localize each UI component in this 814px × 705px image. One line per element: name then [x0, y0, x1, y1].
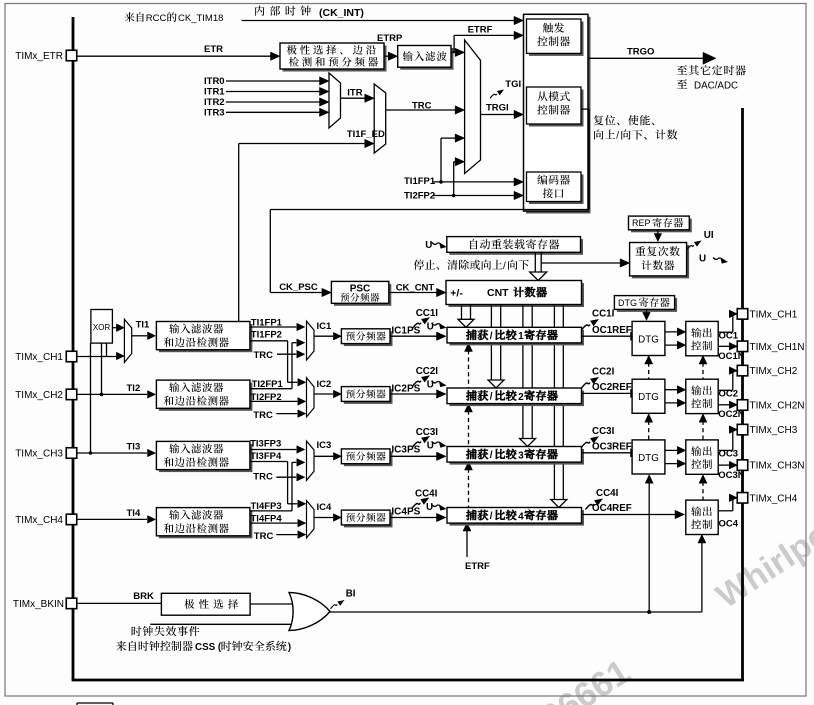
svg-text:TI4: TI4	[127, 508, 141, 519]
svg-text:CC2I: CC2I	[416, 366, 439, 377]
svg-text:CK_TIM18: CK_TIM18	[178, 13, 223, 24]
svg-text:CC4I: CC4I	[415, 489, 438, 500]
svg-text:RCC: RCC	[146, 13, 167, 24]
svg-text:OC2: OC2	[719, 389, 739, 400]
svg-text:DAC/ADC: DAC/ADC	[694, 80, 738, 91]
svg-text:TRC: TRC	[253, 410, 273, 421]
svg-text:TIMx_CH3: TIMx_CH3	[750, 425, 798, 436]
svg-text:TIMx_CH4: TIMx_CH4	[15, 515, 63, 526]
svg-text:TRC: TRC	[254, 531, 274, 542]
svg-text:DTG: DTG	[638, 453, 659, 464]
svg-text:TI1FP2: TI1FP2	[251, 329, 282, 340]
svg-text:OC1N: OC1N	[718, 351, 745, 362]
svg-text:CC3I: CC3I	[592, 426, 615, 437]
svg-text:TRGO: TRGO	[627, 46, 654, 57]
svg-text:CC1I: CC1I	[416, 308, 439, 319]
svg-text:1: 1	[518, 331, 524, 342]
svg-text:U: U	[426, 502, 433, 513]
svg-text:TIMx_CH2N: TIMx_CH2N	[750, 401, 805, 412]
svg-text:OC2REF: OC2REF	[592, 382, 632, 393]
svg-text:IC4PS: IC4PS	[391, 507, 420, 518]
svg-text:TI2FP2: TI2FP2	[404, 190, 435, 201]
svg-text:CSS (: CSS (	[195, 642, 222, 653]
svg-text:U: U	[699, 254, 706, 265]
svg-text:/: /	[503, 261, 506, 272]
svg-text:TI4FP3: TI4FP3	[251, 501, 282, 512]
svg-text:TI2: TI2	[127, 383, 141, 394]
svg-text:/: /	[490, 450, 493, 461]
svg-text:TRC: TRC	[253, 472, 273, 483]
svg-text:ETRF: ETRF	[465, 561, 490, 572]
svg-text:/: /	[490, 511, 493, 522]
svg-text:TI3FP3: TI3FP3	[250, 439, 281, 450]
svg-text:ETR: ETR	[204, 44, 223, 55]
svg-text:CC2I: CC2I	[592, 367, 615, 378]
svg-text:TRGI: TRGI	[486, 103, 509, 114]
svg-text:IC3: IC3	[317, 440, 332, 451]
svg-text:CC4I: CC4I	[596, 488, 619, 499]
svg-text:TI1F_ED: TI1F_ED	[347, 129, 385, 140]
svg-text:4: 4	[518, 511, 524, 522]
svg-text:IC4: IC4	[317, 502, 333, 513]
svg-text:DTG: DTG	[638, 334, 659, 345]
svg-text:REP: REP	[632, 218, 651, 228]
svg-text:ETRF: ETRF	[468, 25, 493, 36]
svg-text:TIMx_CH1: TIMx_CH1	[15, 352, 63, 363]
svg-text:UI: UI	[704, 230, 714, 241]
svg-text:BI: BI	[346, 589, 356, 600]
svg-text:IC2: IC2	[317, 379, 332, 390]
svg-text:TI1: TI1	[136, 320, 150, 331]
svg-text:TIMx_ETR: TIMx_ETR	[15, 51, 63, 62]
svg-text:OC1REF: OC1REF	[592, 325, 632, 336]
svg-text:TI2FP1: TI2FP1	[252, 379, 284, 390]
svg-text:OC4REF: OC4REF	[592, 503, 632, 514]
svg-text:BRK: BRK	[133, 591, 154, 602]
svg-text:ITR1: ITR1	[204, 87, 225, 98]
svg-text:TIMx_CH2: TIMx_CH2	[750, 366, 798, 377]
svg-text:TRC: TRC	[254, 350, 274, 361]
svg-text:DTG: DTG	[618, 298, 637, 308]
svg-text:/: /	[616, 131, 619, 142]
svg-text:3: 3	[518, 450, 524, 461]
svg-text:CK_PSC: CK_PSC	[279, 282, 318, 293]
svg-text:XOR: XOR	[93, 323, 111, 332]
svg-text:OC3REF: OC3REF	[592, 442, 632, 453]
svg-text:U: U	[425, 240, 432, 251]
svg-text:TGI: TGI	[505, 79, 521, 90]
svg-text:IC3PS: IC3PS	[391, 445, 420, 456]
svg-text:CC1I: CC1I	[592, 309, 615, 320]
svg-text:): )	[288, 642, 291, 653]
svg-text:U: U	[427, 322, 434, 333]
svg-text:OC3: OC3	[719, 449, 739, 460]
svg-text:TIMx_CH1: TIMx_CH1	[750, 310, 798, 321]
svg-text:TI3: TI3	[127, 442, 141, 453]
svg-text:+/-: +/-	[450, 287, 463, 299]
svg-text:IC1PS: IC1PS	[391, 326, 420, 337]
svg-text:CNT: CNT	[487, 287, 509, 299]
svg-text:/: /	[490, 392, 493, 403]
svg-text:IC2PS: IC2PS	[391, 384, 420, 395]
svg-text:OC3N: OC3N	[718, 470, 745, 481]
svg-text:DTG: DTG	[638, 392, 659, 403]
svg-text:IC1: IC1	[317, 321, 333, 332]
svg-text:TIMx_CH3: TIMx_CH3	[15, 449, 63, 460]
svg-text:(CK_INT): (CK_INT)	[319, 7, 364, 19]
svg-text:TI1FP1: TI1FP1	[404, 176, 436, 187]
svg-text:/: /	[490, 331, 493, 342]
svg-text:TIMx_CH2: TIMx_CH2	[15, 390, 63, 401]
svg-text:ITR0: ITR0	[204, 76, 225, 87]
svg-text:2: 2	[518, 392, 524, 403]
svg-text:TIMx_CH1N: TIMx_CH1N	[750, 342, 805, 353]
svg-text:PSC: PSC	[350, 284, 371, 295]
svg-text:TIMx_BKIN: TIMx_BKIN	[13, 599, 64, 610]
svg-text:ITR3: ITR3	[204, 108, 225, 119]
svg-text:TIMx_CH3N: TIMx_CH3N	[750, 461, 805, 472]
svg-text:CC3I: CC3I	[416, 427, 439, 438]
svg-text:ITR: ITR	[347, 88, 362, 99]
svg-text:OC1: OC1	[719, 331, 739, 342]
svg-text:TI3FP4: TI3FP4	[250, 451, 282, 462]
svg-text:OC4: OC4	[719, 518, 739, 529]
svg-text:ETRP: ETRP	[377, 33, 403, 44]
svg-text:TIMx_CH4: TIMx_CH4	[750, 493, 798, 504]
svg-text:U: U	[427, 380, 434, 391]
